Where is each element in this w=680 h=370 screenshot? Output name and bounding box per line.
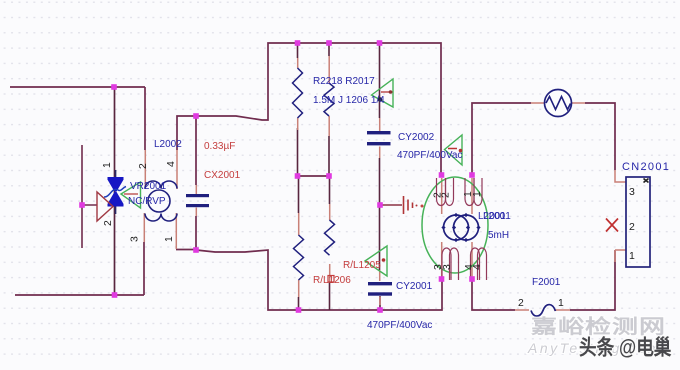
wire R/L1206 column (298, 176, 300, 310)
svg-text:2: 2 (103, 220, 114, 226)
svg-text:1.5M J 1206 1/4: 1.5M J 1206 1/4 (313, 95, 385, 106)
thermistor circle (545, 90, 572, 117)
no-connect X on pin2 (606, 219, 618, 232)
svg-text:R/L1205: R/L1205 (343, 260, 381, 271)
pin lead thermistor (531, 102, 585, 104)
wire R/L1205 column (329, 176, 331, 310)
svg-text:4: 4 (166, 161, 177, 167)
capacitor CX2001 (186, 194, 209, 207)
svg-text:2: 2 (518, 298, 524, 309)
pin lead L2002 pin2 (144, 150, 146, 189)
svg-text:2: 2 (138, 163, 149, 169)
resistor R/L1206 (294, 235, 304, 280)
wire top-left rail (10, 86, 145, 88)
svg-text:R/L1206: R/L1206 (313, 275, 351, 286)
pin lead R2218 (297, 58, 299, 130)
svg-text:1: 1 (558, 298, 564, 309)
resistor R2017 (324, 83, 334, 116)
pin lead CY2002 (379, 118, 381, 158)
svg-text:2: 2 (441, 192, 452, 198)
svg-text:3: 3 (442, 264, 453, 270)
svg-text:R2218 R2017: R2218 R2017 (313, 76, 375, 87)
labels red (204, 141, 381, 286)
svg-text:5mH: 5mH (488, 230, 509, 241)
choke L2001 (doubled symbol) (422, 177, 488, 280)
resistor R/L1205 (325, 220, 335, 255)
svg-text:NC/RVP: NC/RVP (128, 196, 166, 207)
wire bottom mid path (196, 250, 442, 310)
pin lead R2017 (328, 56, 330, 136)
green flag at 400Vac (445, 135, 463, 165)
wire L2002 pin3 (143, 242, 145, 295)
svg-text:3: 3 (629, 186, 635, 198)
svg-text:0.33µF: 0.33µF (204, 141, 235, 152)
svg-text:CN2001: CN2001 (622, 161, 670, 173)
svg-text:L2002: L2002 (154, 139, 182, 150)
pin lead CN2001 pin3 (615, 170, 626, 182)
svg-text:470PF/400Vac: 470PF/400Vac (397, 150, 462, 161)
capacitor CY2002 (367, 131, 391, 145)
svg-text:1: 1 (472, 191, 483, 197)
pin staples (437, 178, 487, 280)
fuse F2001 (531, 305, 556, 317)
svg-text:1: 1 (164, 236, 175, 242)
wire L2002 pin1 to CX node (176, 249, 196, 251)
svg-text:CX2001: CX2001 (204, 170, 241, 181)
green flag near VR2001 (121, 182, 141, 208)
green flag at R/L1205 (365, 246, 387, 276)
svg-text:VR2001: VR2001 (130, 181, 167, 192)
svg-text:4: 4 (472, 264, 483, 270)
wire R2017 column (328, 43, 330, 176)
resistor R2218 (293, 68, 303, 118)
varistor VR2001 (104, 170, 126, 214)
svg-text:F2001: F2001 (532, 277, 561, 288)
svg-text:1: 1 (102, 162, 113, 168)
svg-text:CY2002: CY2002 (398, 132, 435, 143)
capacitor CY2001 (368, 282, 392, 296)
pin lead CN2001 pin1 (615, 250, 626, 262)
diode arrow into varistor (97, 192, 113, 221)
choke L2002 (145, 181, 177, 221)
wire CY2002-CY2001 chain (379, 43, 382, 310)
wire L2001 right pin to thermistor to CN pin3 (472, 103, 615, 175)
pin lead R/L1205 (329, 204, 331, 282)
pin lead L2002 pin4 (176, 150, 178, 189)
wire mid short rail (298, 175, 330, 177)
wire CX chain (195, 116, 197, 250)
wire L2002 pin2 drop (144, 87, 146, 150)
svg-text:嘉峪检测网: 嘉峪检测网 (531, 315, 666, 337)
labels blue (128, 76, 670, 331)
pin lead fuse (515, 309, 570, 311)
svg-text:L2001: L2001 (483, 211, 511, 222)
pin lead CY2001 (379, 270, 381, 305)
wire y116 run up to top rail and across to L2001 (177, 43, 441, 175)
wire varistor column (114, 87, 116, 295)
svg-text:3: 3 (130, 236, 141, 242)
pin lead CX2001 (195, 185, 197, 216)
connector CN2001 (626, 177, 650, 267)
svg-text:1: 1 (629, 250, 635, 262)
junction nodes (79, 40, 475, 313)
svg-text:头条 @电巢: 头条 @电巢 (579, 335, 672, 360)
pin lead R/L1206 (298, 213, 300, 297)
wire ground tap (380, 204, 402, 206)
wire R2218 column (297, 43, 299, 176)
wire bottom right rail (472, 250, 615, 310)
wire bottom-left rail (15, 294, 144, 296)
ground symbol (404, 196, 424, 214)
green flag at CY2002 top node (372, 79, 394, 107)
pin lead L2002 pin1 (175, 213, 177, 249)
svg-text:CY2001: CY2001 (396, 281, 433, 292)
pin lead L2001 pins (442, 178, 472, 279)
svg-text:2: 2 (629, 221, 635, 233)
interlocked cores (444, 215, 469, 240)
pin lead L2002 pin3 (143, 213, 145, 242)
wire stub line left (82, 145, 97, 248)
svg-text:470PF/400Vac: 470PF/400Vac (367, 320, 432, 331)
green envelope (422, 177, 488, 273)
